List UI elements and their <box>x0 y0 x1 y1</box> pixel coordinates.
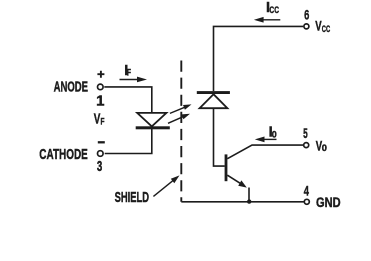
cathode terminal pin 3 <box>98 151 104 157</box>
svg-text:5: 5 <box>303 125 308 141</box>
svg-text:4: 4 <box>304 182 309 198</box>
shield pointer arrow <box>153 175 179 196</box>
anode terminal pin 1 <box>98 84 104 90</box>
wire Vcc to photodiode <box>214 26 304 91</box>
svg-text:1: 1 <box>96 92 104 109</box>
wire collector to Vo <box>227 145 303 159</box>
junction dot <box>247 199 251 203</box>
svg-text:GND: GND <box>316 194 341 210</box>
svg-text:CC: CC <box>322 24 330 35</box>
wire ground rail <box>181 201 303 203</box>
svg-text:CATHODE: CATHODE <box>39 146 88 163</box>
svg-text:0: 0 <box>322 143 327 154</box>
IO current arrow <box>255 137 277 143</box>
svg-text:3: 3 <box>97 158 102 175</box>
svg-text:ANODE: ANODE <box>54 78 88 95</box>
svg-text:CC: CC <box>269 5 279 16</box>
transistor Q1 <box>225 154 247 187</box>
wire LED to cathode <box>105 129 152 154</box>
Vcc terminal pin 6 <box>304 24 309 29</box>
svg-text:SHIELD: SHIELD <box>115 189 149 206</box>
Vo terminal pin 5 <box>304 143 309 148</box>
svg-text:V: V <box>94 112 101 128</box>
IF current arrow <box>120 77 148 83</box>
plus polarity mark <box>97 71 104 78</box>
svg-text:F: F <box>101 117 105 128</box>
light arrow upper <box>170 104 192 113</box>
light arrow lower <box>168 114 190 124</box>
wire emitter to ground <box>248 188 250 202</box>
shield dashed line <box>180 61 182 202</box>
svg-text:6: 6 <box>304 7 309 23</box>
wire photodiode to transistor base <box>214 109 225 166</box>
minus polarity mark <box>98 141 105 143</box>
svg-text:0: 0 <box>272 129 277 140</box>
GND terminal pin 4 <box>304 199 309 204</box>
wire anode to LED <box>104 87 152 112</box>
LED <box>136 113 170 129</box>
ICC current arrow <box>254 17 280 23</box>
photodiode <box>197 91 230 108</box>
svg-text:F: F <box>127 68 131 79</box>
